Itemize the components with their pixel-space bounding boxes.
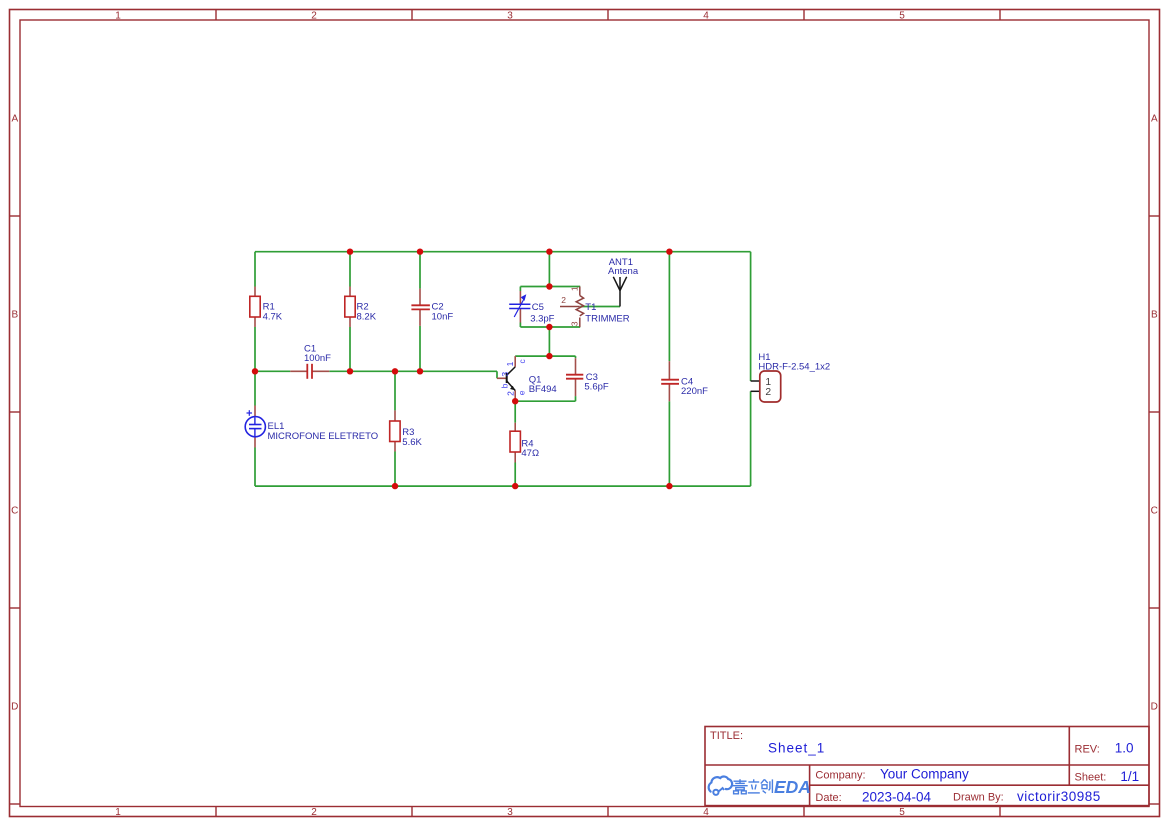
connector H1 — [751, 371, 781, 402]
glyph jia — [732, 779, 747, 794]
wire left column — [254, 252, 256, 287]
microphone EL1 — [245, 406, 265, 448]
svg-text:5: 5 — [899, 10, 905, 21]
logo JLC EDA — [709, 777, 811, 797]
svg-text:Company:: Company: — [815, 770, 865, 782]
svg-text:5: 5 — [899, 807, 905, 818]
title block box — [705, 727, 1149, 806]
svg-text:B: B — [11, 310, 18, 321]
svg-text:1: 1 — [505, 361, 515, 366]
svg-text:220nF: 220nF — [681, 386, 708, 397]
wire R4 column — [514, 401, 516, 423]
svg-text:100nF: 100nF — [304, 353, 331, 364]
svg-text:4.7K: 4.7K — [263, 311, 283, 322]
wire mid rail — [255, 370, 290, 372]
junction tank top — [546, 283, 552, 289]
wire H1 column — [750, 252, 752, 381]
svg-text:C: C — [1151, 506, 1158, 517]
inductor T1 (trimmer) — [560, 287, 584, 328]
capacitor C1 — [290, 364, 329, 379]
svg-text:2023-04-04: 2023-04-04 — [862, 790, 932, 805]
title block texts — [710, 730, 1139, 805]
wire bottom rail — [255, 485, 751, 487]
wire Q1 emitter rail — [515, 400, 575, 402]
wire antenna — [580, 306, 620, 308]
svg-text:47Ω: 47Ω — [521, 448, 539, 459]
wire C4 column — [668, 252, 670, 362]
resistor R4 — [510, 423, 520, 463]
svg-text:3: 3 — [570, 321, 580, 326]
svg-text:T1: T1 — [585, 302, 596, 313]
wire Q1 collector rail — [515, 355, 575, 357]
svg-text:B: B — [1151, 310, 1158, 321]
junction R3 mid rail — [392, 368, 398, 374]
svg-text:5.6K: 5.6K — [402, 437, 422, 448]
svg-text:MICROFONE ELETRETO: MICROFONE ELETRETO — [268, 431, 379, 442]
wire R2 column — [349, 252, 351, 287]
svg-text:D: D — [11, 702, 18, 713]
resistor R2 — [345, 287, 355, 328]
svg-text:Sheet_1: Sheet_1 — [768, 740, 825, 755]
svg-text:EDA: EDA — [774, 777, 811, 797]
svg-text:TRIMMER: TRIMMER — [585, 314, 629, 325]
svg-text:2: 2 — [311, 10, 317, 21]
svg-text:C: C — [11, 506, 18, 517]
capacitor C4 — [661, 361, 679, 401]
capacitor C5 (variable, blue) — [509, 291, 530, 323]
wire tank loop — [520, 286, 580, 288]
resistor R3 — [390, 410, 400, 451]
svg-text:victorir30985: victorir30985 — [1017, 789, 1101, 804]
svg-text:Your Company: Your Company — [880, 767, 969, 782]
junction tank bottom — [546, 324, 552, 330]
svg-text:3.3pF: 3.3pF — [530, 314, 554, 325]
svg-text:TITLE:: TITLE: — [710, 730, 743, 742]
junction R4 bottom rail — [512, 483, 518, 489]
svg-text:4: 4 — [703, 10, 709, 21]
svg-text:c: c — [517, 359, 527, 364]
svg-text:A: A — [1151, 114, 1158, 125]
svg-text:4: 4 — [703, 807, 709, 818]
svg-text:e: e — [517, 390, 527, 395]
junction tank feed top rail — [546, 249, 552, 255]
svg-text:2: 2 — [311, 807, 317, 818]
wire C3 stubs — [575, 356, 577, 358]
component labels — [263, 257, 831, 459]
svg-text:HDR-F-2.54_1x2: HDR-F-2.54_1x2 — [758, 362, 830, 373]
junction C4 bottom rail — [666, 483, 672, 489]
capacitor C2 — [411, 289, 430, 326]
svg-text:REV:: REV: — [1075, 744, 1100, 756]
svg-text:1: 1 — [115, 10, 121, 21]
wire tank feed — [548, 252, 550, 287]
wire C2 column — [419, 252, 421, 289]
svg-text:3: 3 — [500, 372, 510, 377]
glyph li — [748, 779, 760, 793]
transistor Q1 — [497, 356, 515, 401]
junction R3 bottom rail — [392, 483, 398, 489]
svg-text:1.0: 1.0 — [1115, 740, 1134, 755]
junction R2 top rail — [347, 249, 353, 255]
junction Q1 emitter node — [512, 398, 518, 404]
junction C2 mid rail — [417, 368, 423, 374]
svg-text:BF494: BF494 — [529, 384, 557, 395]
Q1 pin numbers and names — [500, 359, 527, 396]
svg-text:Antena: Antena — [608, 266, 639, 277]
T1 pin numbers — [561, 286, 579, 326]
glyph chuang — [761, 779, 773, 793]
wire tank to Q1 — [548, 327, 550, 356]
wire top rail — [255, 252, 751, 486]
svg-text:5.6pF: 5.6pF — [584, 382, 608, 393]
svg-text:b: b — [500, 383, 510, 388]
junction R2 mid rail — [347, 368, 353, 374]
resistor R1 — [250, 287, 260, 328]
svg-text:3: 3 — [507, 10, 513, 21]
svg-text:Date:: Date: — [815, 792, 841, 804]
svg-text:Drawn By:: Drawn By: — [953, 792, 1004, 804]
junction C2 top rail — [417, 249, 423, 255]
svg-text:2: 2 — [561, 295, 566, 305]
svg-text:1: 1 — [570, 286, 580, 291]
svg-text:D: D — [1151, 702, 1158, 713]
junction Q1 collector node — [546, 353, 552, 359]
svg-text:10nF: 10nF — [432, 311, 454, 322]
svg-text:1: 1 — [115, 807, 121, 818]
svg-text:C5: C5 — [532, 302, 544, 313]
svg-text:2: 2 — [505, 391, 515, 396]
antenna ANT1 — [613, 277, 626, 307]
svg-text:8.2K: 8.2K — [357, 311, 377, 322]
svg-text:A: A — [11, 114, 18, 125]
junction EL1 mid rail — [252, 368, 258, 374]
svg-text:1/1: 1/1 — [1120, 769, 1139, 784]
svg-text:3: 3 — [507, 807, 513, 818]
svg-text:2: 2 — [765, 387, 771, 398]
capacitor C3 — [566, 358, 583, 396]
svg-text:Sheet:: Sheet: — [1075, 771, 1107, 783]
wire R3 column — [394, 371, 396, 410]
junction C4 top rail — [666, 249, 672, 255]
